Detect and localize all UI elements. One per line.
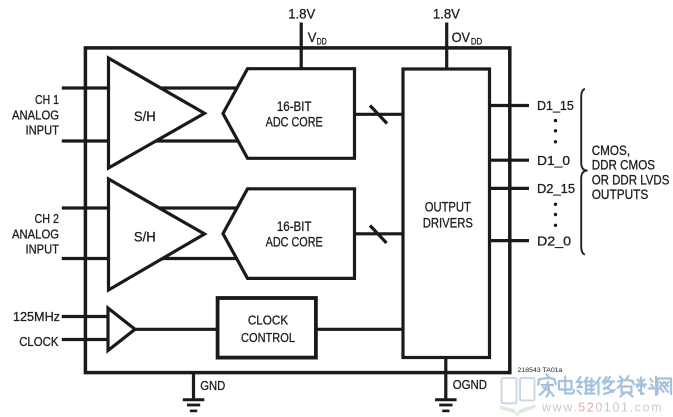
svg-text:OGND: OGND xyxy=(453,377,487,392)
svg-text:OUTPUT: OUTPUT xyxy=(425,199,471,214)
svg-text:DDR CMOS: DDR CMOS xyxy=(592,157,655,172)
svg-text:CLOCK: CLOCK xyxy=(19,334,59,349)
svg-text:D1_15: D1_15 xyxy=(537,98,574,113)
svg-text:INPUT: INPUT xyxy=(26,123,60,138)
svg-text:CMOS,: CMOS, xyxy=(592,143,630,158)
svg-text:DD: DD xyxy=(471,37,483,47)
svg-text:1.8V: 1.8V xyxy=(288,6,316,22)
svg-text:CH 2: CH 2 xyxy=(35,211,60,226)
svg-text:ADC CORE: ADC CORE xyxy=(266,234,323,249)
svg-text:CONTROL: CONTROL xyxy=(241,330,295,345)
svg-text:D1_0: D1_0 xyxy=(537,153,570,168)
svg-text:OV: OV xyxy=(452,29,471,45)
svg-text:V: V xyxy=(308,29,317,45)
svg-text:218543 TA01a: 218543 TA01a xyxy=(518,367,563,374)
svg-text:D2_0: D2_0 xyxy=(537,233,571,248)
svg-text:OR DDR LVDS: OR DDR LVDS xyxy=(592,172,670,187)
svg-text:16-BIT: 16-BIT xyxy=(277,219,312,234)
svg-text:CH 1: CH 1 xyxy=(35,92,59,107)
svg-text:GND: GND xyxy=(200,378,225,393)
svg-text:www.520101.com: www.520101.com xyxy=(541,401,663,415)
svg-text:S/H: S/H xyxy=(134,109,156,124)
svg-text:CLOCK: CLOCK xyxy=(248,313,289,328)
svg-text:INPUT: INPUT xyxy=(26,242,60,257)
svg-text:DRIVERS: DRIVERS xyxy=(423,215,473,230)
svg-text:1.8V: 1.8V xyxy=(433,6,461,22)
svg-text:16-BIT: 16-BIT xyxy=(277,99,312,114)
svg-text:ANALOG: ANALOG xyxy=(12,227,59,242)
svg-text:S/H: S/H xyxy=(134,229,156,244)
svg-text:DD: DD xyxy=(317,37,327,47)
svg-text:125MHz: 125MHz xyxy=(13,309,60,324)
svg-text:ADC CORE: ADC CORE xyxy=(266,114,323,129)
svg-text:ANALOG: ANALOG xyxy=(12,108,59,123)
svg-text:OUTPUTS: OUTPUTS xyxy=(592,187,649,202)
svg-text:D2_15: D2_15 xyxy=(537,181,575,196)
